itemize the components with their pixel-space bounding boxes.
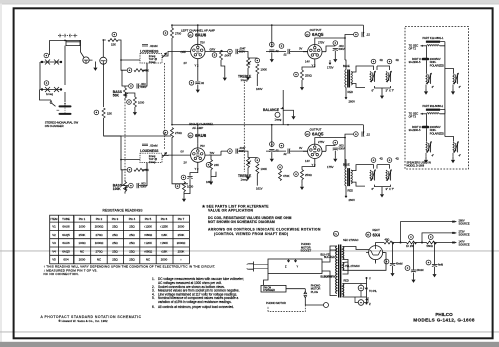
coupling cap C3 .003 [137,83,139,88]
svg-text:Pin 4: Pin 4 [129,217,136,221]
wire choke left down [425,46,427,59]
svg-text:Y 2: Y 2 [195,167,199,171]
wire to channel 2 [104,118,171,136]
top right cap C9 .22 [362,32,364,37]
pilot lamp PL1 [358,285,364,291]
wire input loop top [50,40,81,55]
filter cap C4C [426,260,431,265]
resistance readings table [50,209,190,264]
svg-text:2000: 2000 [178,225,185,229]
svg-text:4": 4" [432,154,435,158]
svg-text:↑120K: ↑120K [144,241,152,245]
svg-text:4": 4" [432,85,435,89]
ext speaker D [453,141,459,152]
ground speaker C [425,153,427,157]
grid resistor R10 100K [256,64,259,74]
svg-text:Z: Z [369,302,371,306]
wire jack feed [89,40,106,60]
svg-text:PLUG: PLUG [311,290,318,294]
dropping resistor R23 [407,241,417,244]
273V riser [422,233,453,243]
svg-text:25Ω: 25Ω [112,225,118,229]
svg-text:275V: 275V [318,41,324,45]
page scan artifacts [0,0,499,4]
svg-text:↑18K: ↑18K [161,249,168,253]
svg-text:Y: Y [369,276,371,280]
svg-text:OF T2: OF T2 [409,47,417,51]
tube V5 6X4 [369,246,383,260]
svg-text:SOURCE: SOURCE [459,233,470,237]
plate wire V2 [315,38,345,60]
svg-text:SEC 273VAC: SEC 273VAC [343,238,359,242]
svg-text:Pin 1: Pin 1 [79,217,86,221]
resistor R4 15K vertical [102,108,105,118]
ground stub mid 2 [209,179,213,185]
svg-text:Pin 2: Pin 2 [96,217,103,221]
svg-text:30-2390-5: 30-2390-5 [409,60,421,64]
coupling cap C5 [236,49,238,54]
svg-text:Y 2: Y 2 [195,64,199,68]
svg-text:6.: 6. [152,305,155,309]
svg-text:NC: NC [146,258,150,262]
svg-text:0V: 0V [299,146,302,150]
147V SOURCE terminal [452,241,454,243]
svg-text:1K 2W: 1K 2W [406,244,414,248]
svg-text:25Ω: 25Ω [129,225,135,229]
svg-text:25Ω: 25Ω [129,258,135,262]
ground under V3 [182,196,186,202]
cathode cap C12 [187,177,192,179]
svg-text:Pin 3: Pin 3 [112,217,119,221]
output transformer T2 [345,70,353,88]
sw on changer box [261,285,286,292]
svg-text:All controls at minimum, prop: All controls at minimum, proper output l… [158,305,234,309]
svg-text:PART K12-0881-1: PART K12-0881-1 [423,36,444,40]
svg-text:NC: NC [80,249,84,253]
260V SOURCE terminal [452,221,454,223]
V1 pin stubs [186,40,209,64]
ground between jacks [94,62,96,65]
speaker SP2 [386,71,392,82]
sw hook contact [40,90,52,102]
V1 voltage labels [181,41,216,68]
svg-text:BALANCE: BALANCE [263,108,280,112]
wire V3 plate coupling [209,155,216,179]
svg-text:25Ω: 25Ω [112,233,118,237]
svg-text:4Ω: 4Ω [396,158,399,161]
junction dot 273V tap [421,242,423,244]
svg-text:15K: 15K [107,112,112,116]
Z terminal [366,303,368,305]
philco model titles [413,312,475,323]
wire left rail to ch2 cathode bus [172,137,188,184]
ground speaker D [452,153,454,157]
V3 ref circle [188,133,193,138]
filter cap C4A [384,259,389,264]
svg-text:25Ω: 25Ω [112,258,118,262]
screen cap C15 [269,150,274,152]
svg-text:4": 4" [459,154,462,158]
arrow to sec T3 [421,113,427,115]
cathode resistor R12 250ohm [301,70,304,80]
np electrolytic blob [422,58,430,61]
svg-text:6AU6: 6AU6 [195,133,207,138]
control shaft dashed link [164,63,166,150]
plate wire V3 up [197,125,199,144]
svg-text:250K: 250K [178,249,185,253]
screen bypass cap C17 [333,148,338,150]
series resistor R3 top [108,39,118,42]
svg-text:250K: 250K [79,233,86,237]
ground speaker B [452,85,454,89]
left rail continues [171,38,173,125]
wire to jack [65,47,84,85]
svg-text:5.: 5. [152,296,155,300]
svg-text:Pin 7: Pin 7 [178,217,185,221]
treble shaft dashed link [243,82,245,173]
svg-text:6AU6: 6AU6 [62,241,70,245]
svg-text:MODELS G-1412, G-1608: MODELS G-1412, G-1608 [413,318,475,323]
cathode resistor R27 1000 [183,182,186,192]
svg-text:70V: 70V [210,151,215,155]
ground speaker A [425,85,427,89]
svg-text:6AU6: 6AU6 [62,225,70,229]
svg-text:OF T3: OF T3 [409,115,417,119]
secondary wires to speakers 2 [351,165,373,187]
pilot lamp PL2 [358,300,364,306]
svg-text:600V: 600V [339,47,345,51]
resistor R28 47K [134,168,144,171]
svg-text:RECT: RECT [373,228,381,232]
svg-text:175V: 175V [327,165,334,169]
ext speaker A [426,73,432,84]
plate load resistor R9 [220,50,223,60]
wire bus right channel feed [118,40,131,60]
resistor R8 1000 [133,97,136,107]
wire pot to caps [40,62,65,106]
svg-text:V1: V1 [52,225,56,229]
svg-text:RED: RED [348,188,354,192]
svg-text:250K: 250K [178,233,185,237]
wire loop to changer switch [264,274,269,286]
wires loop to T1 [322,250,337,278]
svg-text:50K: 50K [113,94,120,98]
svg-text:SOURCE: SOURCE [459,242,470,246]
loudness wiper arrow 2 [162,153,167,158]
ext speaker B [453,73,459,84]
svg-text:1000: 1000 [138,101,145,105]
svg-text:LOUDNESS: LOUDNESS [140,50,159,54]
svg-text:SOCKET: SOCKET [301,249,312,253]
svg-text:160V: 160V [256,87,263,91]
input jack left [83,57,89,63]
photofact footer [41,315,142,323]
pilot lamp loop [343,278,367,304]
svg-text:270Ω: 270Ω [96,233,104,237]
Y terminal [366,277,368,279]
svg-text:YEL 273VAC: YEL 273VAC [345,264,360,268]
svg-text:1meg: 1meg [46,92,53,96]
wires to speakers [426,60,453,73]
table footnotes [44,265,216,277]
svg-text:ITEM: ITEM [51,217,58,221]
svg-text:.02mfd: .02mfd [150,144,158,148]
svg-text:↑680Ω: ↑680Ω [144,249,153,253]
heater wire to V5 [343,260,376,274]
circled ref R2 [44,81,49,86]
resistor R7 47K [134,69,144,72]
secondary wires to speakers [351,66,373,88]
svg-text:BLUE: BLUE [343,64,350,68]
wire choke right [440,42,445,69]
svg-text:V5: V5 [52,258,56,262]
svg-text:.22: .22 [366,132,370,136]
T1 HV secondary [343,247,344,260]
coupling cap C13 .003 [137,183,139,188]
wire loudness to grid [131,52,186,61]
svg-text:POLARIZED: POLARIZED [430,64,444,67]
arrow to sec T2 [421,45,427,47]
svg-text:100K: 100K [113,187,122,191]
plate wire V4 [315,138,345,168]
svg-text:V4: V4 [52,249,56,253]
top right cap C18 .22 [362,132,364,137]
svg-text:V2: V2 [52,233,56,237]
svg-text:↑120K: ↑120K [144,225,152,229]
screen cap C6 [269,50,274,52]
wire R28 [121,160,147,170]
ground under V1 [196,87,200,93]
svg-text:LOUDNESS: LOUDNESS [140,149,159,153]
speaker SP4 [386,170,392,181]
svg-text:25Ω: 25Ω [112,249,118,253]
svg-text:25Ω: 25Ω [129,233,135,237]
V3 pin stubs [186,144,209,168]
svg-text:1meg: 1meg [149,60,156,64]
svg-text:Pin 5: Pin 5 [145,217,152,221]
svg-text:↑: ↑ [180,258,182,262]
cathode wire to 49ohm [376,243,384,246]
choke L1 [426,41,440,43]
tube V2 [308,45,322,59]
V1 ref circle [188,32,193,37]
svg-text:PHONO MOTOR: PHONO MOTOR [266,301,286,305]
screen bypass cap C8 [333,49,338,51]
svg-text:250Ω: 250Ω [305,74,312,78]
svg-text:6": 6" [372,187,375,191]
T1 heater winding [343,263,344,271]
svg-text:.02: .02 [283,53,287,57]
left rail down [171,25,173,28]
V4 voltage labels [299,140,324,167]
svg-text:1meg: 1meg [241,78,248,82]
svg-text:4Ω: 4Ω [380,59,383,62]
ground under bass network [133,109,137,115]
circled ref R1 [44,53,49,58]
svg-text:6X4: 6X4 [63,258,69,262]
filter cap C4B [405,266,410,271]
svg-text:1000Ω: 1000Ω [95,241,104,245]
svg-text:.02: .02 [275,49,279,53]
svg-text:44: 44 [365,287,368,290]
svg-text:PART #32-8088-1: PART #32-8088-1 [423,104,444,108]
svg-text:(CONTROL VIEWED FROM SHAFT END: (CONTROL VIEWED FROM SHAFT END) [214,232,289,236]
273V SOURCE terminal [452,232,454,234]
svg-text:0V: 0V [181,150,184,154]
tube V3 [191,148,205,162]
wire sw to plug [286,289,305,292]
147V rail [435,242,454,244]
power transformer T1 [334,231,339,236]
svg-text:75V: 75V [200,41,205,45]
wires to speakers 2 [426,128,453,141]
svg-text:↑160K: ↑160K [160,241,168,245]
cathode bypass cap C2 [197,64,199,81]
svg-text:Y: Y [297,266,299,269]
svg-text:6AQ5: 6AQ5 [62,249,70,253]
svg-text:6AQ5: 6AQ5 [312,132,324,137]
plate load resistor R29 24K [210,160,213,170]
svg-text:1meg: 1meg [275,118,282,122]
junction dot 273V [400,242,402,244]
resistor R26 270 [171,128,174,138]
speaker SP1 [370,71,376,82]
junction dots [64,24,346,160]
svg-text:100Ω: 100Ω [79,241,87,245]
dashed enclosure [405,27,469,170]
plate wire V1 up [197,25,199,40]
svg-text:OFF: OFF [181,50,187,54]
svg-text:RESISTANCE READINGS: RESISTANCE READINGS [103,209,144,213]
svg-text:PHILCO: PHILCO [435,312,453,317]
svg-text:6AQ5: 6AQ5 [312,32,324,37]
svg-text:NC NO CONNECTION.: NC NO CONNECTION. [44,272,79,276]
svg-text:1meg: 1meg [241,178,248,182]
grid resistor R31 470K [279,171,282,181]
stereo-monaural label [45,120,79,128]
svg-text:100K: 100K [261,68,268,72]
tube V1 [191,44,205,58]
svg-text:32: 32 [201,81,205,85]
grid resistor R30 100K [256,164,259,174]
ac interlock plug [247,262,268,272]
svg-text:15K: 15K [111,43,116,47]
svg-text:↑680Ω: ↑680Ω [144,233,153,237]
svg-text:ON CHANGER: ON CHANGER [45,124,64,128]
np electrolytic blob 2 [422,126,430,129]
svg-text:↑125K: ↑125K [160,225,168,229]
svg-text:6": 6" [372,89,375,93]
svg-text:2000Ω: 2000Ω [177,241,186,245]
wire loudness2 to grid [104,136,186,160]
input jack right [100,57,107,64]
dashed motor return [268,305,305,312]
svg-text:POLARIZED: POLARIZED [430,132,444,135]
parts list note block [201,205,321,236]
svg-text:100K: 100K [261,167,268,171]
output transformer T3 [345,168,353,186]
svg-text:560Ω: 560Ω [427,244,433,248]
wire choke left down 2 [425,114,427,127]
choke L2 [426,109,440,111]
svg-text:24K: 24K [214,163,219,167]
T1 pilot winding [343,284,344,297]
svg-text:2000: 2000 [79,258,86,262]
volume control pot (upper) [40,60,62,65]
loudness wiper arrow [162,53,167,58]
V2 voltage labels [299,41,324,68]
svg-text:2000Ω: 2000Ω [95,225,104,229]
svg-text:1meg: 1meg [149,160,156,164]
long vertical feed wire [103,64,105,107]
svg-text:470K: 470K [283,174,290,178]
B+ mid rail [172,124,363,126]
svg-text:2000: 2000 [161,258,168,262]
svg-text:25Ω: 25Ω [129,241,135,245]
electrolytic cap C1B [57,108,71,114]
svg-text:1000: 1000 [79,225,86,229]
svg-text:2V: 2V [184,160,187,164]
V3 voltage labels [181,144,215,171]
svg-text:260V: 260V [349,198,356,202]
tube V4 [308,144,322,158]
B+ top rail [172,24,363,26]
electrolytic cap C1A [60,103,71,107]
wire R7 [121,60,147,70]
260V riser [401,222,454,243]
changer switch contacts [58,35,78,37]
svg-text:30-2390-5: 30-2390-5 [409,128,421,132]
svg-text:1.: 1. [152,277,155,281]
wire V1 plate to coupling [209,50,225,75]
svg-text:VALUE OR APPLICATION: VALUE OR APPLICATION [208,208,254,212]
svg-text:40mfd: 40mfd [396,263,404,266]
cathode network V3 [190,168,198,176]
numbered notes [152,277,244,309]
svg-text:NOT SHOWN ON SCHEMATIC DIAGRAM: NOT SHOWN ON SCHEMATIC DIAGRAM [208,220,275,224]
svg-text:0V: 0V [299,47,302,51]
svg-text:25Ω: 25Ω [129,249,135,253]
svg-text:270Ω: 270Ω [175,131,182,135]
svg-text:2V: 2V [184,61,187,65]
V2 ref circle [305,32,310,37]
wire choke right 2 [440,110,445,137]
T1 primary wires [330,246,337,296]
svg-text:GRY: GRY [210,48,216,52]
svg-text:TO PIL: TO PIL [369,290,377,293]
right rail between groups [444,69,446,114]
svg-text:14V: 14V [305,60,310,64]
svg-text:↑18K: ↑18K [161,233,168,237]
svg-text:14V: 14V [305,159,310,163]
ground stub mid [223,75,227,81]
loudness cap 50mfd [142,45,148,47]
svg-text:6AU6: 6AU6 [195,32,207,37]
svg-text:NC: NC [97,258,101,262]
svg-text:RED: RED [344,280,349,283]
ext speaker C [426,141,432,152]
cathode resistor R32 250ohm [301,170,304,180]
svg-text:BLUE: BLUE [343,162,350,166]
svg-text:600V: 600V [339,147,345,151]
svg-text:V3: V3 [52,241,56,245]
svg-text:RED: RED [348,90,354,94]
svg-text:260V: 260V [349,100,356,104]
socket contact Y [294,259,296,262]
svg-text:MODEL D-1608: MODEL D-1608 [407,164,425,167]
loudness cap 2 [142,144,148,146]
T1 core [339,245,341,298]
